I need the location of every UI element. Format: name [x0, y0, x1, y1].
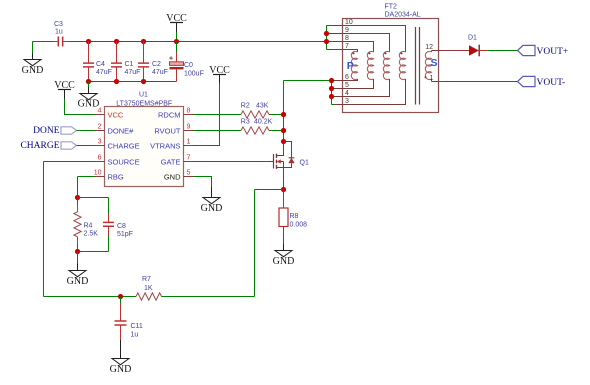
transformer bottom pin stubs	[335, 81, 343, 105]
svg-text:3: 3	[98, 139, 102, 146]
junction dot C11 tap	[118, 294, 123, 299]
transformer primary winding 4	[343, 26, 406, 105]
svg-text:D1: D1	[468, 35, 477, 42]
svg-text:C3: C3	[54, 21, 63, 28]
svg-text:100uF: 100uF	[184, 71, 204, 78]
svg-text:CHARGE: CHARGE	[20, 141, 59, 151]
svg-text:51pF: 51pF	[117, 231, 133, 238]
svg-text:8: 8	[187, 108, 191, 115]
svg-text:4: 4	[98, 108, 102, 115]
wire bottom pin column	[332, 81, 335, 105]
svg-text:GND: GND	[201, 203, 223, 214]
svg-text:40.2K: 40.2K	[254, 118, 273, 125]
svg-text:9: 9	[187, 124, 191, 131]
svg-text:P: P	[347, 60, 354, 72]
wire DONE to pin2	[77, 130, 95, 132]
svg-text:RVOUT: RVOUT	[154, 127, 181, 136]
svg-text:1: 1	[430, 75, 434, 82]
svg-text:8: 8	[345, 35, 349, 42]
resistor R3 40.2K	[241, 118, 273, 134]
wire top bus main	[68, 41, 327, 43]
U1 pin numbers left	[94, 108, 102, 177]
wire gnd drop top-left	[32, 42, 34, 54]
junction dot R2 column	[281, 112, 286, 117]
svg-text:1u: 1u	[55, 29, 63, 36]
svg-text:VOUT-: VOUT-	[537, 78, 566, 88]
svg-text:RBG: RBG	[108, 173, 124, 182]
svg-text:Q1: Q1	[300, 159, 309, 166]
transistor Q1 NMOS	[267, 142, 309, 173]
wire Q1 source to right column	[255, 190, 284, 297]
svg-text:47uF: 47uF	[125, 69, 141, 76]
capacitor C11 1u	[115, 297, 143, 341]
svg-text:R7: R7	[142, 276, 151, 283]
svg-text:RDCM: RDCM	[158, 111, 181, 120]
junction dot pin8 bus	[324, 39, 329, 44]
junction dot Q1 source	[281, 187, 286, 192]
resistor R7 1K	[136, 276, 162, 300]
svg-text:VTRANS: VTRANS	[150, 142, 180, 151]
junction dots bottom bus	[86, 79, 146, 84]
junction dot pin6	[329, 78, 334, 83]
junction dot pin9	[324, 31, 329, 36]
svg-text:U1: U1	[139, 92, 148, 99]
resistor R2 43K	[241, 102, 269, 118]
junction dot R4 C8 bottom	[75, 249, 80, 254]
svg-text:R8: R8	[290, 213, 299, 220]
svg-text:DONE#: DONE#	[108, 127, 135, 136]
junction dot Q1 drain	[281, 139, 286, 144]
wire RBG to R4 top	[78, 177, 95, 198]
svg-text:DA2034-AL: DA2034-AL	[385, 11, 421, 18]
svg-text:7: 7	[187, 155, 191, 162]
svg-text:SOURCE: SOURCE	[108, 158, 140, 167]
transformer FT2 DA2034-AL box	[343, 4, 439, 113]
wire RDCM to R2	[194, 114, 242, 116]
wire bottom rail right	[162, 296, 255, 298]
ground GND2	[78, 82, 100, 110]
svg-text:GND: GND	[273, 256, 295, 267]
svg-text:C4: C4	[96, 61, 105, 68]
op-amp/IC U1 LT3750EMS#PBF body	[105, 92, 184, 187]
wire primary column vertical	[283, 81, 285, 142]
svg-text:2.5K: 2.5K	[84, 231, 99, 238]
svg-text:5: 5	[187, 170, 191, 177]
port VOUT-	[518, 76, 566, 88]
transformer secondary winding	[425, 51, 439, 82]
capacitor C2	[138, 42, 168, 82]
svg-text:GND: GND	[110, 364, 132, 375]
svg-text:VCC: VCC	[108, 111, 124, 120]
diode D1	[460, 35, 488, 57]
svg-text:10: 10	[94, 170, 102, 177]
svg-text:GND: GND	[78, 99, 100, 110]
power VCC1	[166, 13, 187, 42]
port DONE	[33, 126, 76, 136]
svg-text:5: 5	[345, 82, 349, 89]
wire bottom rail left	[44, 296, 137, 298]
transformer top pin stubs	[335, 26, 343, 50]
U1 right pin stubs pins 8,9,1,7,5	[184, 115, 194, 177]
capacitor C4	[83, 42, 112, 82]
svg-text:CHARGE: CHARGE	[108, 142, 140, 151]
junction dot pin4	[329, 94, 334, 99]
wire R4 C8 top link	[78, 197, 109, 199]
junction dots top bus	[86, 39, 179, 44]
svg-text:R2: R2	[241, 102, 250, 109]
transformer core	[416, 27, 420, 105]
svg-text:2: 2	[98, 124, 102, 131]
transformer primary winding 2	[343, 42, 374, 89]
svg-text:1: 1	[187, 139, 191, 146]
svg-text:GND: GND	[67, 276, 89, 287]
wire Q1 source down	[283, 172, 285, 190]
wire R3 to column	[269, 130, 284, 132]
wire column to transformer bottom pins	[284, 80, 332, 82]
capacitor C0 electrolytic	[169, 42, 204, 82]
svg-text:47uF: 47uF	[96, 69, 112, 76]
svg-text:C8: C8	[117, 223, 126, 230]
wire top bus left segment	[33, 41, 54, 43]
ground GND3	[201, 187, 223, 214]
port VOUT+	[518, 45, 569, 57]
wire pin5 to gnd	[194, 177, 212, 188]
svg-text:C0: C0	[184, 62, 193, 69]
wire diode to VOUT+	[488, 50, 518, 52]
capacitor C8 51pF	[103, 198, 133, 252]
svg-text:4: 4	[345, 90, 349, 97]
svg-text:43K: 43K	[256, 102, 269, 109]
svg-text:GATE: GATE	[161, 158, 181, 167]
wire CHARGE to pin3	[77, 145, 95, 147]
svg-text:C11: C11	[131, 323, 143, 330]
svg-text:LT3750EMS#PBF: LT3750EMS#PBF	[116, 100, 172, 107]
U1 left pin stubs pins 4,2,3,6,10	[95, 115, 105, 177]
svg-text:R4: R4	[84, 223, 93, 230]
svg-text:6: 6	[345, 74, 349, 81]
svg-text:GND: GND	[164, 173, 181, 182]
resistor R4 2.5K	[74, 198, 98, 252]
svg-text:12: 12	[425, 44, 433, 51]
transformer primary winding 1	[343, 50, 358, 81]
wire R2 to column	[269, 114, 284, 116]
svg-text:R3: R3	[241, 118, 250, 125]
wire caps bottom bus	[89, 81, 177, 83]
svg-text:3: 3	[345, 98, 349, 105]
svg-text:7: 7	[345, 43, 349, 50]
svg-text:S: S	[431, 57, 438, 69]
svg-text:9: 9	[345, 27, 349, 34]
capacitor C1	[111, 42, 140, 82]
svg-text:FT2: FT2	[385, 4, 398, 11]
junction dot R3 column	[281, 128, 286, 133]
U1 pin numbers right	[187, 108, 191, 177]
ground GND5	[273, 244, 295, 267]
wire GATE to Q1	[194, 161, 267, 163]
svg-text:1K: 1K	[144, 285, 153, 292]
power VCC2	[54, 80, 94, 115]
power VCC3 above VTRANS	[194, 65, 231, 146]
svg-text:GND: GND	[22, 65, 44, 76]
wire SOURCE down left	[44, 162, 95, 297]
transformer primary winding 3	[343, 34, 390, 97]
ground GND4	[67, 252, 89, 287]
svg-text:C2: C2	[152, 61, 161, 68]
transformer pin numbers 6 5 4 3	[345, 74, 349, 105]
svg-text:VOUT+: VOUT+	[537, 47, 569, 57]
wire pin1 to VOUT-	[439, 81, 446, 83]
svg-text:C1: C1	[125, 61, 134, 68]
transformer pin numbers 10 9 8 7	[345, 19, 353, 50]
resistor R8 0.008	[279, 190, 307, 245]
junction dot R4 C8 top	[75, 195, 80, 200]
svg-text:1u: 1u	[131, 332, 139, 339]
capacitor C3	[53, 21, 68, 47]
ground GND1	[22, 53, 44, 76]
wire RVOUT to R3	[194, 130, 242, 132]
svg-text:10: 10	[345, 19, 353, 26]
wire top pin column	[327, 26, 335, 50]
port CHARGE	[20, 141, 76, 151]
svg-text:0.008: 0.008	[290, 222, 308, 229]
ground GND6	[110, 340, 132, 375]
svg-text:47uF: 47uF	[152, 69, 168, 76]
wire R4 C8 bottom link	[78, 251, 109, 253]
wire pin12 to diode	[439, 50, 461, 52]
svg-text:6: 6	[98, 155, 102, 162]
junction dot pin5	[329, 86, 334, 91]
svg-text:DONE: DONE	[33, 126, 60, 136]
